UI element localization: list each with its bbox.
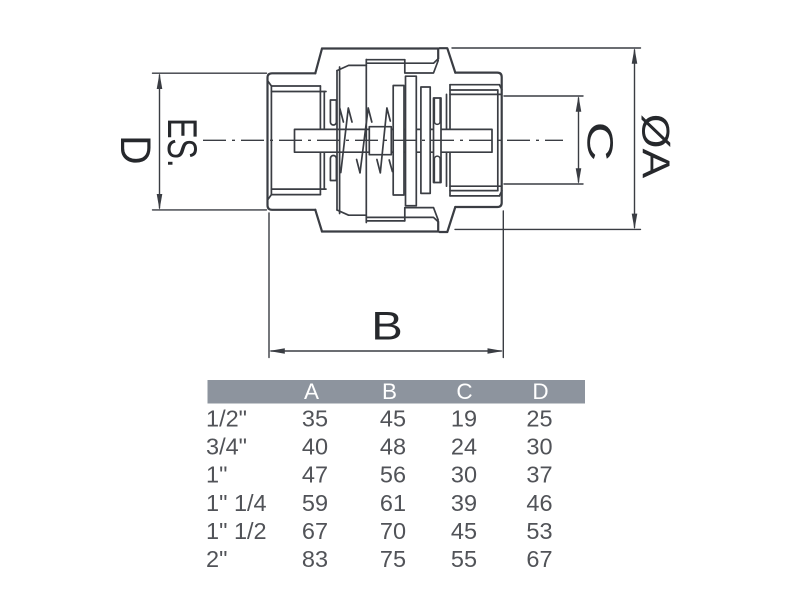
svg-text:56: 56	[380, 462, 406, 488]
svg-text:70: 70	[380, 518, 406, 544]
svg-text:40: 40	[302, 434, 328, 460]
svg-text:67: 67	[302, 518, 328, 544]
svg-text:59: 59	[302, 490, 328, 516]
svg-text:61: 61	[380, 490, 406, 516]
svg-text:46: 46	[526, 490, 552, 516]
svg-text:24: 24	[451, 434, 477, 460]
svg-text:25: 25	[526, 406, 552, 432]
svg-text:1" 1/2: 1" 1/2	[206, 518, 267, 544]
svg-text:C: C	[456, 379, 472, 404]
svg-text:47: 47	[302, 462, 328, 488]
svg-text:53: 53	[526, 518, 552, 544]
svg-text:A: A	[304, 379, 319, 404]
svg-text:55: 55	[451, 546, 477, 572]
svg-text:1" 1/4: 1" 1/4	[206, 490, 267, 516]
svg-text:35: 35	[302, 406, 328, 432]
svg-text:C: C	[580, 122, 620, 162]
svg-text:39: 39	[451, 490, 477, 516]
svg-text:75: 75	[380, 546, 406, 572]
svg-text:83: 83	[302, 546, 328, 572]
svg-text:45: 45	[451, 518, 477, 544]
svg-text:1": 1"	[206, 462, 227, 488]
svg-text:ES.: ES.	[159, 118, 206, 167]
svg-text:D: D	[532, 379, 548, 404]
svg-text:45: 45	[380, 406, 406, 432]
svg-text:19: 19	[451, 406, 477, 432]
svg-text:1/2": 1/2"	[206, 406, 247, 432]
svg-text:3/4": 3/4"	[206, 434, 247, 460]
svg-text:B: B	[371, 304, 402, 349]
svg-text:D: D	[112, 135, 160, 164]
svg-text:B: B	[382, 379, 397, 404]
svg-text:2": 2"	[206, 546, 227, 572]
svg-text:30: 30	[526, 434, 552, 460]
svg-text:30: 30	[451, 462, 477, 488]
svg-text:67: 67	[526, 546, 552, 572]
svg-text:ØA: ØA	[634, 114, 678, 179]
svg-text:37: 37	[526, 462, 552, 488]
svg-text:48: 48	[380, 434, 406, 460]
